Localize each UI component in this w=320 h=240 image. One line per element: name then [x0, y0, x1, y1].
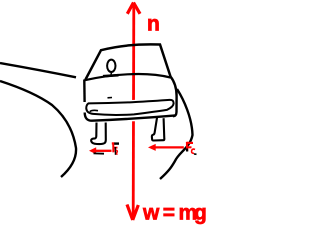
svg-text:w = mg: w = mg	[142, 202, 206, 225]
car beltline	[84, 74, 170, 80]
car body lower white fill (hides force line behind bumper area)	[88, 98, 176, 122]
mirror	[103, 60, 119, 77]
car roof	[86, 44, 171, 79]
bumper	[86, 100, 173, 115]
bumper top tick	[108, 97, 113, 99]
car body left edge	[83, 80, 86, 103]
car body bottom edge	[85, 113, 176, 121]
friction arrow right	[148, 144, 184, 151]
road edge upper-left	[0, 63, 76, 77]
bumper left-cap inner fold	[90, 110, 98, 111]
svg-text:n: n	[147, 13, 160, 36]
right wheel	[152, 118, 164, 141]
force line w (main vertical red arrow)	[127, 3, 140, 221]
road edge right	[160, 89, 193, 179]
car body right edge	[171, 77, 177, 117]
road edge lower-left	[0, 81, 76, 177]
label F1	[112, 143, 119, 155]
left wheel	[91, 123, 106, 145]
friction arrow left	[89, 147, 112, 154]
label F2	[187, 142, 197, 155]
